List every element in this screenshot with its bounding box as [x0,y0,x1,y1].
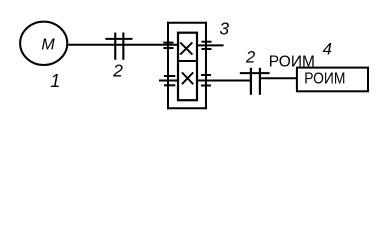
gear block divider [178,60,197,62]
wire: output shaft left stub [159,80,178,82]
bearing caps right wall input shaft [202,41,212,43]
lower gear X [182,72,193,84]
coupling C2 cap line [240,72,270,74]
gearbox housing bottom bar [167,107,207,109]
wire: shaft coupling 2 to POИM box [261,77,297,79]
coupling C2 left half-bar [250,68,252,95]
upper gear X [180,42,192,54]
coupling C1 right half-bar [122,33,124,60]
gearbox housing left wall [167,22,169,110]
gearbox housing top bar [167,22,207,24]
svg-text:М: М [41,37,55,54]
gear block outer rectangle [178,33,197,101]
svg-text:2: 2 [112,60,123,80]
bearing caps right wall output shaft [201,74,211,76]
coupling C1 cap line [105,38,132,40]
svg-text:3: 3 [219,19,229,39]
wire: input shaft motor to gearbox [68,44,178,46]
svg-text:2: 2 [245,49,255,67]
coupling C2 right half-bar [259,68,261,95]
wire: output shaft gearbox to coupling 2 [197,80,251,82]
svg-text:РОИМ: РОИМ [304,71,345,88]
motor M1 (electric motor ellipse) [20,22,67,65]
coupling C1 left half-bar [114,33,116,60]
bearing caps left wall output shaft [164,75,175,77]
РОИМ box (driven machine) [297,68,368,92]
kinematic drive schematic: motor - coupling - two-stage gearbox - coupling - РОИМ [0,0,381,115]
bearing caps left wall input shaft [163,42,173,44]
svg-text:4: 4 [322,40,331,59]
svg-text:1: 1 [50,71,60,91]
gearbox housing right wall [205,22,207,110]
wire: input shaft stub right of gear block [197,44,224,46]
